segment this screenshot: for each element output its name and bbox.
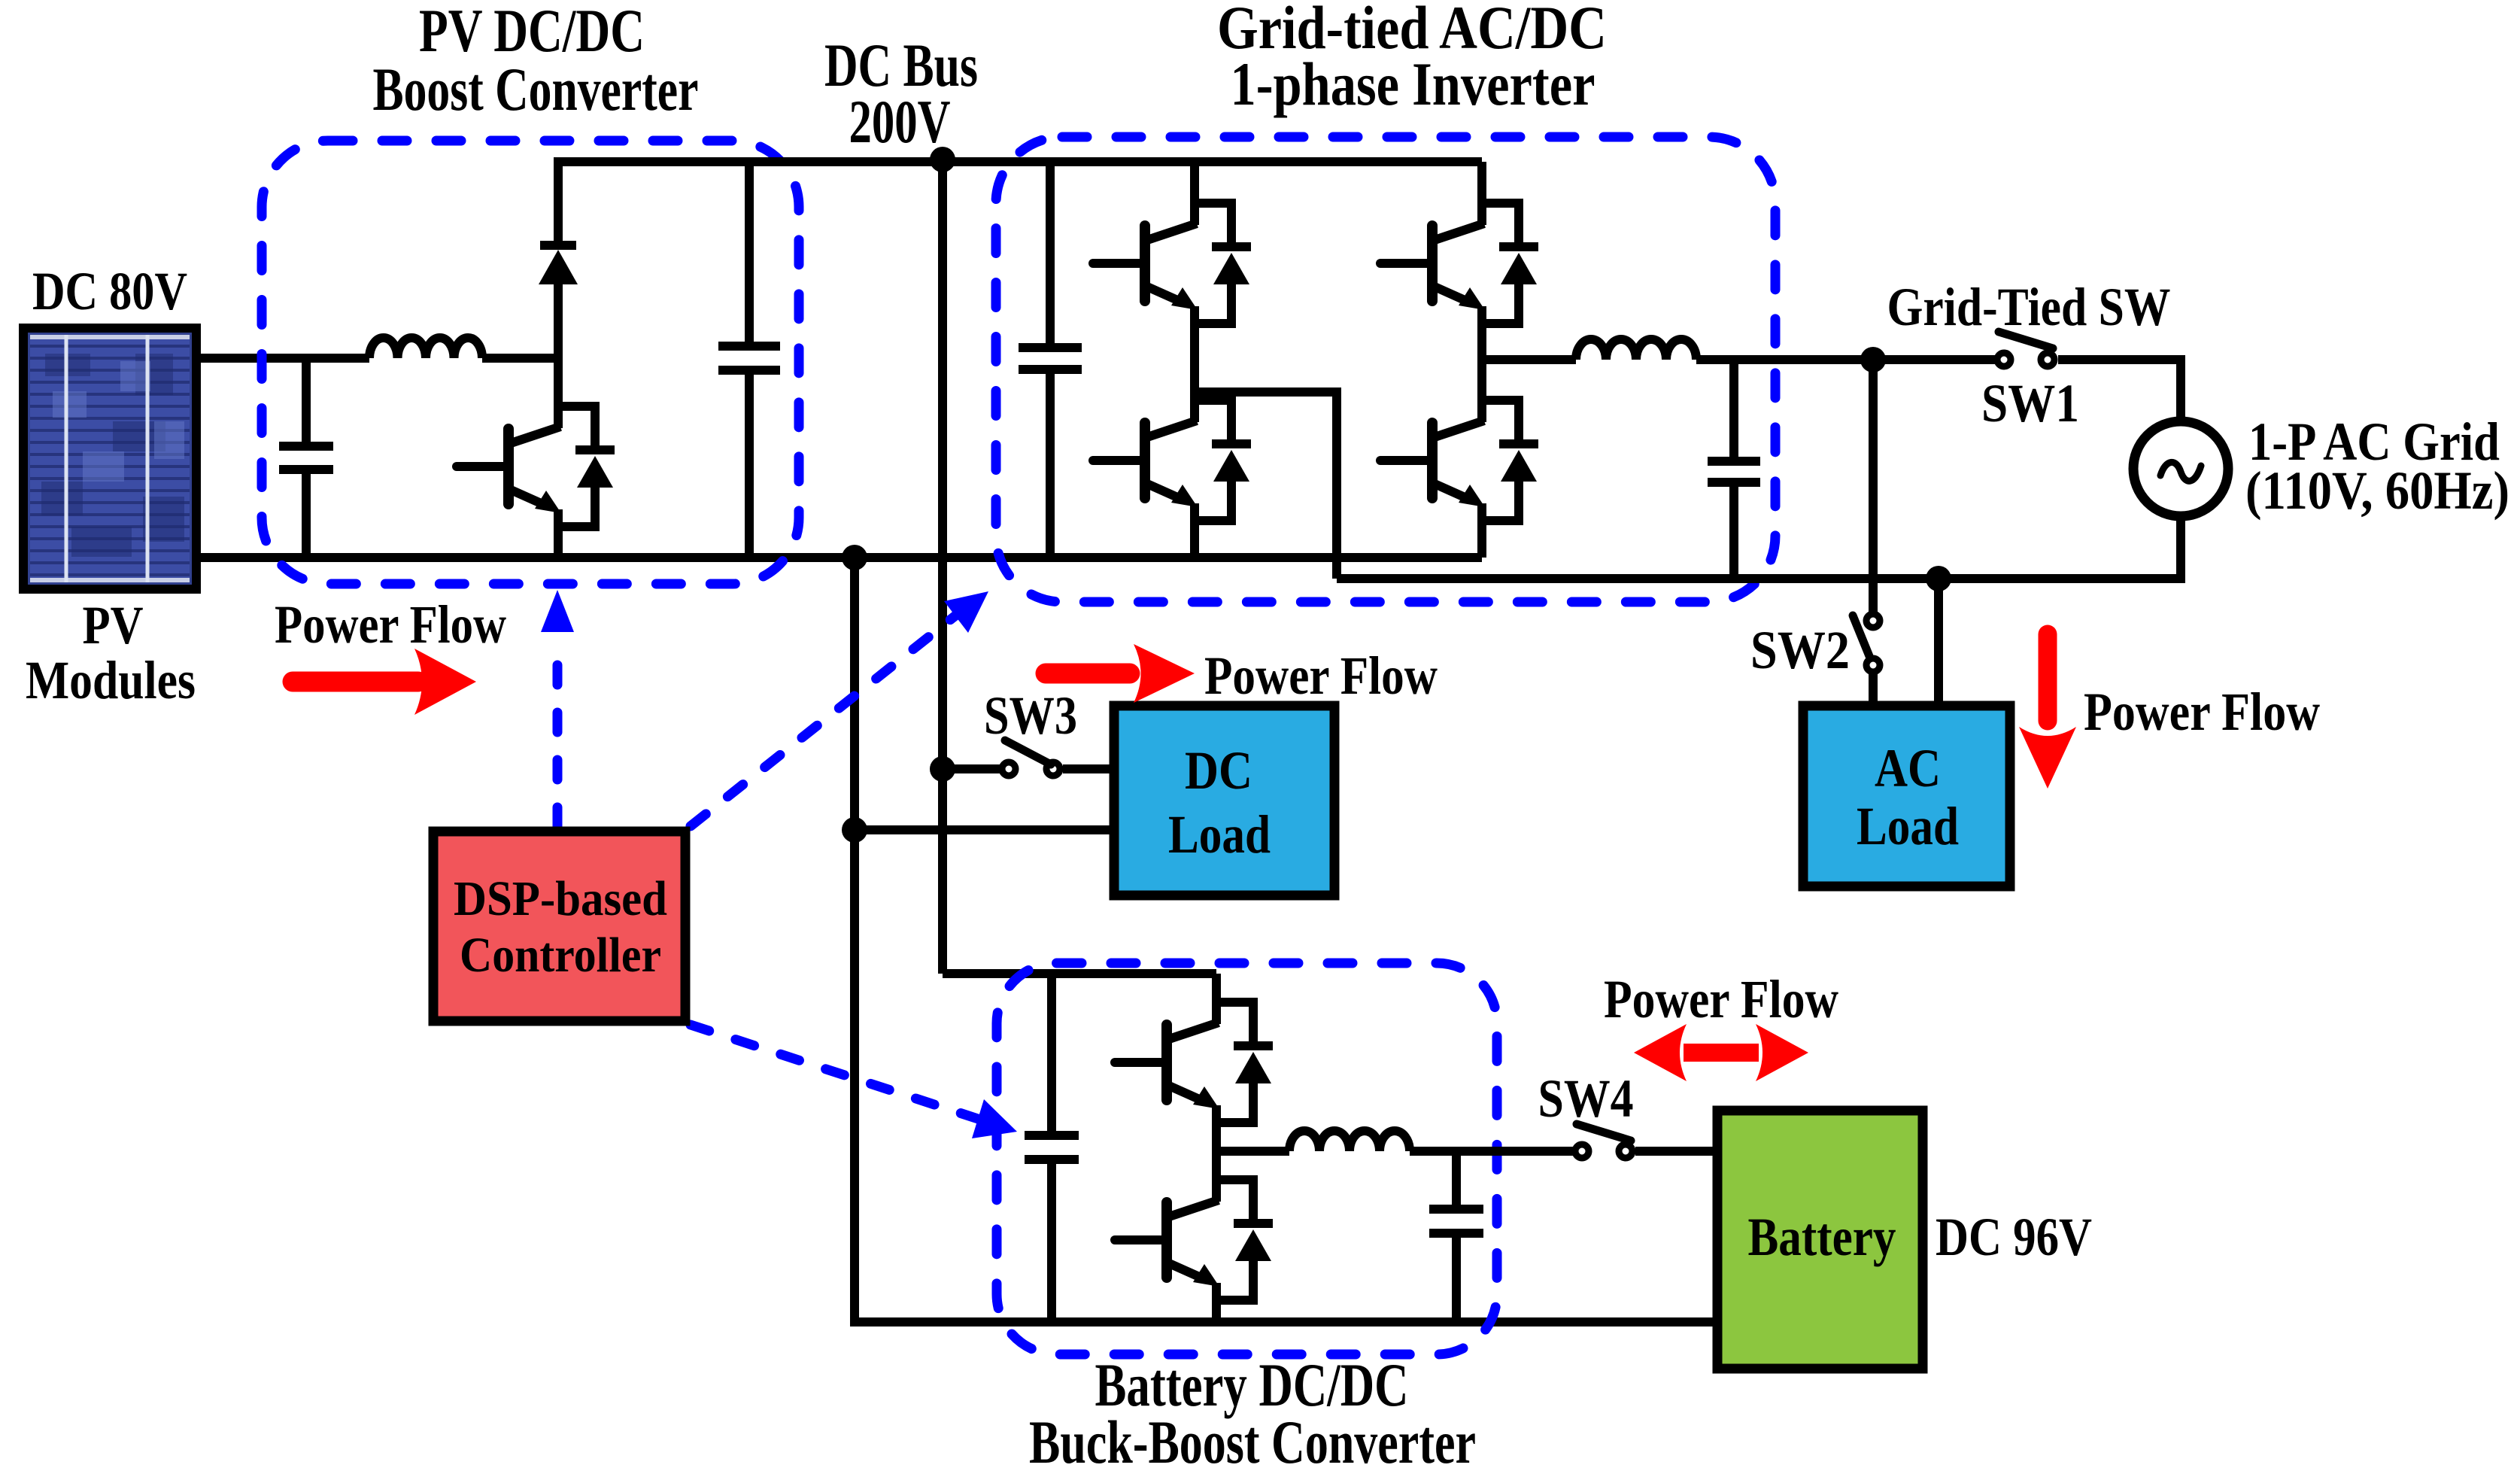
wire midpoint B to filter inductor — [1482, 355, 1576, 364]
wire AC return line — [1337, 574, 2181, 583]
boost converter dashed box — [262, 141, 799, 584]
svg-text:DC 96V: DC 96V — [1936, 1207, 2092, 1267]
wire DC- vertical drop — [855, 558, 1717, 1322]
wire Q1 emitter to rail — [554, 524, 563, 558]
wire L1 to boost leg — [482, 354, 563, 363]
wire Q7 collector — [1212, 1151, 1221, 1181]
svg-text:Power Flow: Power Flow — [1604, 969, 1838, 1029]
transistor Q4 inverter top-right IGBT — [1380, 203, 1538, 324]
svg-text:PV: PV — [83, 595, 144, 655]
svg-text:Battery: Battery — [1748, 1207, 1896, 1267]
wire DC bus to battery converter — [943, 969, 1216, 978]
wire SW3 to DC load — [1063, 764, 1114, 773]
AC Load box — [1803, 706, 2010, 886]
transistor Q2 inverter top-left IGBT — [1093, 203, 1251, 324]
node AC return — [1926, 566, 1951, 591]
node DC bus + — [930, 147, 955, 172]
inverter dashed box — [996, 137, 1775, 602]
node DC load return — [842, 817, 867, 843]
svg-text:Load: Load — [1857, 796, 1959, 856]
svg-text:DSP-based: DSP-based — [454, 871, 667, 926]
wire Q5 emitter to rail — [1477, 519, 1486, 558]
svg-text:Power Flow: Power Flow — [275, 594, 506, 655]
wire Q3 collector — [1190, 392, 1199, 402]
wire Q4 emitter to midpoint B — [1477, 322, 1486, 364]
wire battery midpoint — [1216, 1147, 1289, 1156]
Battery box — [1717, 1111, 1923, 1369]
capacitor C6 battery converter output — [1429, 1151, 1483, 1322]
inductor L3 battery — [1289, 1131, 1410, 1151]
wire DC bus vertical — [938, 160, 947, 974]
arrow power flow down red — [2019, 634, 2076, 789]
wire DC+ top rail — [557, 157, 1482, 166]
diode D1 boost — [539, 157, 578, 427]
switch SW2 — [1853, 360, 1880, 710]
inductor L1 boost — [369, 338, 482, 358]
wire inverter midpoint A out — [1195, 392, 1337, 579]
transistor Q5 inverter bottom-right IGBT — [1380, 400, 1538, 521]
svg-text:DC 80V: DC 80V — [32, 261, 187, 321]
capacitor C3 inverter DC link — [1019, 162, 1082, 558]
svg-text:SW1: SW1 — [1981, 373, 2079, 433]
battery converter dashed box — [997, 963, 1497, 1354]
wire Q2 collector — [1190, 162, 1199, 205]
svg-text:Grid-Tied SW: Grid-Tied SW — [1887, 277, 2171, 337]
wire Q6 collector — [1212, 974, 1221, 1004]
svg-text:1-phase Inverter: 1-phase Inverter — [1231, 50, 1595, 118]
PV module photovoltaic panel — [23, 328, 196, 589]
wire L2 to SW1 — [1696, 355, 1995, 364]
svg-text:Modules: Modules — [26, 650, 196, 710]
svg-text:(110V, 60Hz): (110V, 60Hz) — [2245, 460, 2509, 521]
svg-text:AC: AC — [1875, 738, 1941, 798]
node DC- rail junction — [842, 545, 867, 570]
wire Q7 emitter to rail — [1212, 1299, 1221, 1322]
dashed control arrow DSP to battery converter — [691, 1025, 1017, 1138]
arrow power flow double red — [1634, 1024, 1808, 1081]
transistor Q6 battery converter top IGBT — [1115, 1002, 1273, 1123]
transistor Q7 battery converter bottom IGBT — [1115, 1180, 1273, 1300]
wire L3 to SW4 — [1410, 1147, 1573, 1156]
DSP-based controller box — [433, 831, 685, 1021]
svg-text:Boost Converter: Boost Converter — [373, 55, 699, 123]
wire grid bottom — [2176, 516, 2185, 583]
svg-text:SW3: SW3 — [984, 685, 1077, 746]
wire DC load return — [855, 825, 1114, 834]
wire Q6 emitter to midpoint — [1212, 1121, 1221, 1156]
switch SW4 — [1575, 1124, 1632, 1158]
capacitor C4 output filter — [1708, 360, 1760, 579]
wire SW1 to grid — [2058, 360, 2181, 421]
capacitor C5 battery converter input — [1025, 974, 1079, 1322]
dashed control arrow DSP to boost — [541, 590, 574, 827]
svg-text:DC: DC — [1185, 740, 1252, 801]
wire Q5 collector — [1477, 360, 1486, 402]
svg-text:Buck-Boost Converter: Buck-Boost Converter — [1029, 1408, 1476, 1476]
svg-text:200V: 200V — [849, 87, 951, 156]
AC source 1-phase grid — [2133, 421, 2228, 516]
arrow power flow left red — [293, 649, 476, 715]
wire to SW3 — [943, 764, 1000, 773]
wire AC load right terminal — [1934, 579, 1943, 710]
svg-text:Load: Load — [1168, 804, 1271, 865]
node SW3 branch — [930, 756, 955, 782]
arrow power flow mid red — [1046, 644, 1195, 703]
transistor Q1 boost IGBT — [457, 406, 615, 527]
switch SW3 — [1002, 740, 1060, 776]
transistor Q3 inverter bottom-left IGBT — [1093, 400, 1251, 521]
wire PV top output — [197, 354, 369, 363]
svg-text:Power Flow: Power Flow — [2084, 682, 2320, 742]
node AC hot — [1860, 347, 1886, 372]
capacitor C2 boost output — [718, 162, 780, 558]
inductor L2 output filter — [1576, 339, 1696, 360]
DC Load box — [1114, 706, 1334, 895]
wire SW4 to battery — [1635, 1147, 1717, 1156]
capacitor C1 boost input — [279, 358, 333, 558]
svg-text:Controller: Controller — [460, 928, 661, 983]
svg-text:SW4: SW4 — [1538, 1068, 1634, 1129]
switch SW1 — [1997, 332, 2054, 366]
wire Q2 emitter to midpoint A — [1190, 322, 1199, 397]
wire DC- bottom rail — [197, 553, 1482, 562]
svg-text:Power Flow: Power Flow — [1204, 646, 1438, 706]
wire Q3 emitter to rail — [1190, 519, 1199, 558]
svg-text:SW2: SW2 — [1750, 620, 1850, 680]
dashed control arrow DSP to inverter — [691, 591, 988, 826]
wire Q4 collector — [1477, 162, 1486, 205]
